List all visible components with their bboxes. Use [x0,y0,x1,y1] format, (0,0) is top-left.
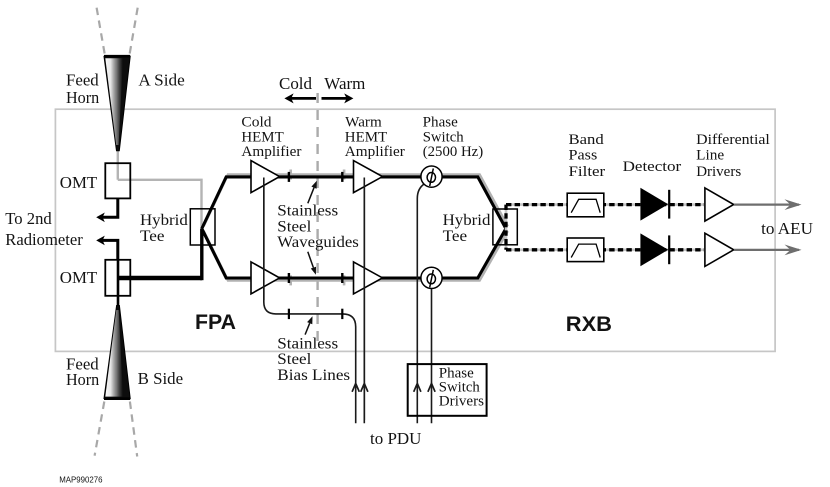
svg-text:OMT: OMT [60,268,98,287]
svg-text:Drivers: Drivers [439,394,485,410]
svg-text:(2500 Hz): (2500 Hz) [423,144,484,160]
svg-text:Cold: Cold [241,115,272,131]
svg-text:To 2nd: To 2nd [5,209,52,228]
svg-text:Cold: Cold [279,74,313,93]
svg-text:B Side: B Side [138,369,184,388]
svg-text:Bias Lines: Bias Lines [277,367,350,384]
svg-text:Horn: Horn [66,370,100,389]
svg-text:Detector: Detector [623,159,682,175]
svg-text:Warm: Warm [324,74,365,93]
svg-text:HEMT: HEMT [345,129,387,145]
svg-text:Steel: Steel [277,219,312,236]
svg-text:OMT: OMT [60,173,98,192]
svg-text:Drivers: Drivers [696,164,741,180]
svg-text:HEMT: HEMT [241,129,283,145]
svg-text:Waveguides: Waveguides [277,234,359,251]
svg-text:Horn: Horn [66,88,100,107]
svg-text:to PDU: to PDU [370,429,421,448]
svg-text:Band: Band [569,132,605,148]
svg-text:Stainless: Stainless [277,203,338,220]
svg-text:Filter: Filter [569,164,606,180]
svg-text:Stainless: Stainless [277,336,338,353]
svg-text:Phase: Phase [423,115,458,131]
svg-text:Hybrid: Hybrid [443,212,491,229]
svg-text:Pass: Pass [569,148,598,164]
svg-text:Amplifier: Amplifier [241,144,301,160]
svg-text:Differential: Differential [696,132,770,148]
svg-text:Switch: Switch [423,129,464,145]
svg-text:Line: Line [696,148,724,164]
svg-text:MAP990276: MAP990276 [59,476,103,485]
svg-text:A Side: A Side [138,71,184,90]
svg-text:Steel: Steel [277,351,312,368]
svg-text:FPA: FPA [195,311,236,334]
svg-text:Hybrid: Hybrid [140,212,188,229]
svg-text:RXB: RXB [566,312,612,336]
svg-text:Amplifier: Amplifier [345,144,405,160]
svg-text:Feed: Feed [66,71,99,90]
svg-text:Tee: Tee [443,228,468,245]
svg-text:Tee: Tee [140,228,165,245]
svg-text:Warm: Warm [345,115,382,131]
svg-text:Radiometer: Radiometer [5,230,83,249]
svg-text:to AEU: to AEU [761,219,813,238]
